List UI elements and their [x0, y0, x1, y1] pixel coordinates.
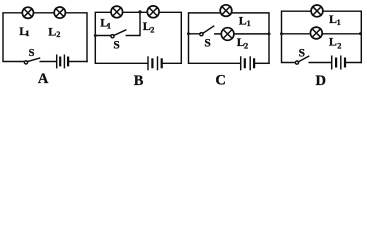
label L1 (circuit D) — [329, 12, 341, 27]
circuit A wire loop — [3, 13, 87, 62]
svg-text:S: S — [204, 38, 210, 50]
lamp L1 (circuit B) — [111, 6, 123, 18]
lamp L1 (circuit C) — [220, 5, 232, 17]
junction node on right edge (circuit D) — [359, 32, 362, 35]
switch S (circuit D) — [295, 56, 308, 64]
svg-text:2: 2 — [244, 41, 248, 50]
lamp L2 (circuit A) — [54, 7, 65, 18]
junction node between L1 and L2 (circuit B) — [138, 10, 141, 13]
svg-text:1: 1 — [247, 19, 251, 28]
lamp L2 (circuit D) — [310, 27, 322, 39]
switch S (circuit A) — [24, 58, 39, 64]
circuit D wire loop — [282, 11, 362, 62]
circuit B wire loop — [95, 12, 181, 63]
svg-text:S: S — [299, 47, 305, 59]
junction node on left edge (circuit D) — [280, 32, 283, 35]
lamp L1 (circuit D) — [311, 5, 323, 17]
wire: parallel branch of switch (circuit B) — [95, 12, 140, 35]
lamp L2 (circuit C) — [221, 28, 234, 41]
battery (circuit B) — [148, 57, 162, 70]
svg-text:2: 2 — [337, 42, 341, 51]
svg-text:C: C — [215, 73, 225, 89]
switch S (circuit C) — [200, 26, 214, 36]
battery (circuit D) — [332, 56, 345, 69]
label L1 (circuit C) — [239, 14, 251, 29]
svg-text:A: A — [38, 71, 49, 87]
label L1 (circuit A) — [19, 24, 29, 38]
svg-text:1: 1 — [107, 22, 111, 31]
label L2 (circuit B) — [143, 19, 155, 34]
wire: parallel branch with L2 (circuit D) — [282, 33, 362, 35]
junction node on left edge (circuit C) — [187, 32, 190, 35]
lamp L1 (circuit A) — [22, 7, 33, 18]
svg-text:S: S — [29, 48, 35, 59]
svg-text:2: 2 — [150, 25, 154, 34]
label L2 (circuit C) — [237, 35, 248, 51]
label L2 (circuit A) — [48, 24, 60, 39]
svg-text:B: B — [134, 73, 144, 89]
svg-text:S: S — [113, 39, 119, 51]
label D — [316, 73, 326, 89]
svg-text:L: L — [48, 24, 56, 38]
label A — [38, 71, 49, 87]
svg-text:L: L — [329, 35, 337, 49]
label C — [215, 73, 225, 89]
svg-text:1: 1 — [25, 29, 29, 38]
junction node on left edge (circuit B) — [94, 34, 97, 37]
label S (circuit C) — [204, 38, 210, 50]
circuit C wire loop — [189, 13, 270, 63]
switch S (circuit B) — [111, 30, 126, 38]
svg-text:D: D — [316, 73, 326, 89]
label S (circuit D) — [299, 47, 305, 59]
label L2 (circuit D) — [329, 35, 342, 51]
junction node on right edge (circuit C) — [268, 32, 271, 35]
label S (circuit B) — [113, 39, 119, 51]
label B — [134, 73, 144, 89]
lamp L2 (circuit B) — [147, 6, 159, 18]
svg-text:2: 2 — [56, 30, 60, 39]
battery (circuit C) — [241, 57, 254, 70]
label S (circuit A) — [29, 48, 35, 59]
label L1 (circuit B) — [100, 15, 111, 30]
wire: middle branch with switch and L2 (circuit C) — [189, 33, 270, 35]
svg-text:1: 1 — [337, 18, 341, 27]
battery (circuit A) — [57, 55, 68, 67]
